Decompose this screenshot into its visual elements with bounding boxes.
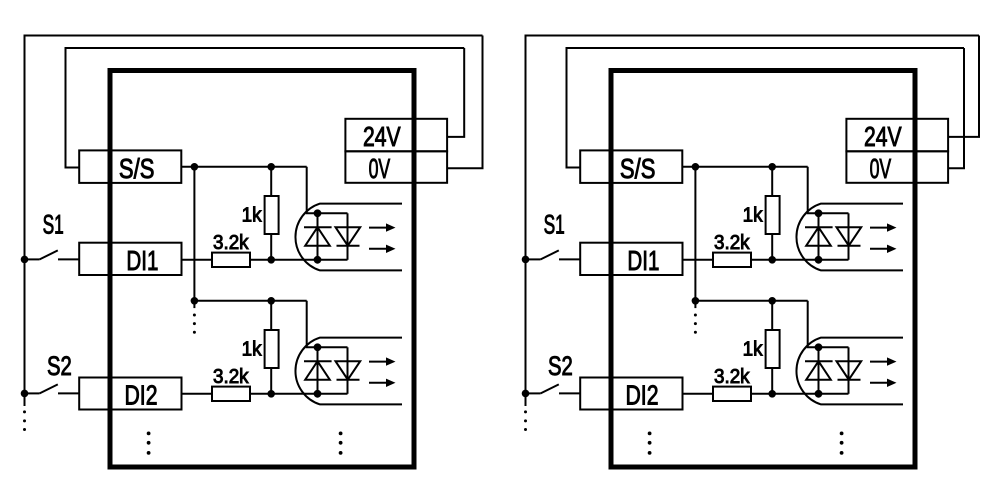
node: common row tap A ch1 B xyxy=(692,163,700,171)
light emission arrow lower ch2 A xyxy=(369,382,387,384)
wire: 1k lower lead ch1 A xyxy=(270,234,272,260)
diode D1 cathode bar ch2 A xyxy=(304,360,332,362)
diode D1 (LED, points up) ch1 A xyxy=(305,227,330,246)
wire: common node row ch2 A xyxy=(194,300,306,302)
node: LED bottom ch1 B xyxy=(815,256,823,264)
wire: common drop to ch2 A xyxy=(193,167,195,301)
wire: LED right axis ch2 A xyxy=(347,347,349,394)
node: common row tap A ch1 A xyxy=(191,163,199,171)
svg-text:DI2: DI2 xyxy=(125,379,158,410)
ellipsis: left rail continues B xyxy=(524,410,527,413)
svg-text:S/S: S/S xyxy=(620,153,656,184)
node: common row tap A ch2 A xyxy=(191,297,199,305)
terminal DI1 box A xyxy=(79,243,181,275)
node: LED anode top ch1 A xyxy=(314,209,322,217)
wire: common node row ch2 B xyxy=(695,300,807,302)
svg-text:3.2k: 3.2k xyxy=(714,365,750,388)
wire: common node row ch1 B xyxy=(682,166,807,168)
node: LED bottom ch2 A xyxy=(314,390,322,398)
diode D1 (LED, points up) ch1 B xyxy=(806,227,831,246)
wire: opto feed ch1 B xyxy=(808,167,819,214)
wire: S1 to DI1 B xyxy=(559,258,580,260)
wire: outer bus loop A (top + left rail) xyxy=(25,36,483,394)
node: 1k feed tap ch1 A xyxy=(267,163,275,171)
wire: 1k upper lead ch1 B xyxy=(771,167,773,196)
opto-coupler envelope ch2 A xyxy=(295,338,402,405)
node: LED anode top ch2 A xyxy=(314,343,322,351)
ellipsis: left rail continues A xyxy=(23,410,26,413)
wire: 24V connector B xyxy=(948,36,979,137)
wire: DI2 box to 3.2k A xyxy=(182,393,213,395)
wire: LED top link ch2 B xyxy=(819,346,849,348)
wire: common continuation stub B xyxy=(694,301,696,308)
wire: rail continuation stub below S2 B xyxy=(525,393,527,406)
switch S2 A xyxy=(25,392,40,394)
node: switch S2 tap B xyxy=(522,390,530,398)
PLC module outline A (bold box) xyxy=(110,71,414,468)
node: LED bottom ch1 A xyxy=(314,256,322,264)
opto-coupler envelope ch2 B xyxy=(796,338,903,405)
diode D2 (LED, points down) ch2 A xyxy=(336,361,361,380)
terminal 24V box B xyxy=(846,119,948,152)
ellipsis: more input terminals A xyxy=(147,432,151,436)
svg-text:DI2: DI2 xyxy=(626,379,659,410)
wire: inner bus loop B (top + rail to S/S) xyxy=(567,48,965,168)
wire: opto feed ch2 A xyxy=(307,301,318,348)
wire: LED left axis ch2 A xyxy=(317,347,319,394)
left panel: sink (minus common) input wiring xyxy=(21,36,483,468)
wire: 1k upper lead ch2 A xyxy=(270,301,272,330)
wire: LED top link ch1 A xyxy=(318,212,348,214)
svg-text:DI1: DI1 xyxy=(126,245,158,276)
resistor 1k ch1 A xyxy=(265,196,279,234)
terminal 0V box B xyxy=(846,151,948,183)
wire: opto feed ch1 A xyxy=(307,167,318,214)
diode D2 (LED, points down) ch1 B xyxy=(837,227,862,246)
svg-text:S/S: S/S xyxy=(119,153,154,184)
svg-text:DI1: DI1 xyxy=(627,245,659,276)
wire: common continuation stub A xyxy=(193,301,195,308)
svg-text:1k: 1k xyxy=(242,337,263,360)
diode D1 cathode bar ch1 B xyxy=(805,226,833,228)
node: input row tap ch2 B xyxy=(768,390,776,398)
resistor 1k ch2 B xyxy=(766,330,780,368)
resistor 3.2k ch2 B xyxy=(713,387,751,401)
node: 1k feed tap ch2 B xyxy=(768,297,776,305)
diode D1 cathode bar ch1 A xyxy=(304,226,332,228)
ellipsis: common rail continues A xyxy=(193,314,196,317)
wire: common node row ch1 A xyxy=(181,166,306,168)
svg-text:24V: 24V xyxy=(363,121,401,152)
wire: LED left axis ch1 B xyxy=(818,213,820,259)
light emission arrow upper ch1 A xyxy=(369,227,387,229)
node: LED anode top ch1 B xyxy=(815,209,823,217)
diode D2 (LED, points down) ch1 A xyxy=(336,227,361,246)
wire: inner bus loop A (top + rail to S/S) xyxy=(66,48,465,168)
wire: LED top link ch1 B xyxy=(819,212,849,214)
resistor 3.2k ch1 A xyxy=(212,253,250,267)
node: input row tap ch2 A xyxy=(267,390,275,398)
wire: opto feed ch2 B xyxy=(808,301,819,348)
wire: 1k lower lead ch2 B xyxy=(771,368,773,394)
wire: 1k lower lead ch1 B xyxy=(771,234,773,260)
light emission arrow lower ch1 B xyxy=(870,248,888,250)
svg-text:1k: 1k xyxy=(743,337,764,360)
wire: S2 to DI2 A xyxy=(58,392,79,394)
right panel: source (plus common) input wiring xyxy=(522,36,979,468)
diode D2 cathode bar ch1 A xyxy=(337,245,360,247)
svg-text:3.2k: 3.2k xyxy=(714,231,750,254)
wire: S2 to DI2 B xyxy=(559,392,580,394)
terminal S/S box B xyxy=(580,150,682,183)
light emission arrow lower ch1 A xyxy=(369,248,387,250)
svg-text:1k: 1k xyxy=(242,203,263,226)
wire: DI1 box to 3.2k A xyxy=(182,259,213,261)
opto-coupler envelope ch1 A xyxy=(295,204,402,271)
wire: LED right axis ch1 A xyxy=(347,213,349,259)
wire: input row ch1 A xyxy=(250,259,348,261)
wire: DI1 box to 3.2k B xyxy=(683,259,714,261)
diode D1 cathode bar ch2 B xyxy=(805,360,833,362)
wire: 0V connector B xyxy=(948,48,964,168)
terminal DI2 box A xyxy=(79,378,181,410)
node: LED anode top ch2 B xyxy=(815,343,823,351)
svg-text:3.2k: 3.2k xyxy=(213,231,249,254)
wire: outer bus loop B (top + left rail) xyxy=(526,36,980,394)
node: switch S1 tap B xyxy=(522,256,530,264)
node: input row tap ch1 B xyxy=(768,256,776,264)
wire: 24V connector A xyxy=(447,48,464,137)
ellipsis: more input circuits B xyxy=(840,432,844,436)
light emission arrow lower ch2 B xyxy=(870,382,888,384)
wire: common drop to ch2 B xyxy=(694,167,696,301)
light emission arrow upper ch2 B xyxy=(870,361,888,363)
wire: 0V connector A xyxy=(447,36,482,169)
opto-coupler envelope ch1 B xyxy=(796,204,903,271)
diode D2 cathode bar ch2 B xyxy=(838,379,861,381)
switch S1 A xyxy=(25,258,40,260)
wire: DI2 box to 3.2k B xyxy=(683,393,714,395)
svg-text:S2: S2 xyxy=(47,351,72,381)
terminal S/S box A xyxy=(79,150,181,183)
wire: 1k lower lead ch2 A xyxy=(270,368,272,394)
wire: rail continuation stub below S2 A xyxy=(24,393,26,406)
wire: input row ch2 B xyxy=(751,393,849,395)
terminal 0V box A xyxy=(345,151,447,183)
node: LED bottom ch2 B xyxy=(815,390,823,398)
wire: LED left axis ch2 B xyxy=(818,347,820,394)
resistor 1k ch1 B xyxy=(766,196,780,234)
wire: input row ch1 B xyxy=(751,259,849,261)
svg-text:0V: 0V xyxy=(369,153,391,184)
terminal DI1 box B xyxy=(580,243,682,275)
light emission arrow upper ch1 B xyxy=(870,227,888,229)
switch S2 B xyxy=(526,392,541,394)
resistor 1k ch2 A xyxy=(265,330,279,368)
svg-text:24V: 24V xyxy=(864,121,902,152)
svg-text:S2: S2 xyxy=(548,351,573,381)
node: 1k feed tap ch1 B xyxy=(768,163,776,171)
wire: 1k upper lead ch2 B xyxy=(771,301,773,330)
node: switch S2 tap A xyxy=(21,390,29,398)
terminal DI2 box B xyxy=(580,378,682,410)
node: switch S1 tap A xyxy=(21,256,29,264)
svg-text:0V: 0V xyxy=(870,153,892,184)
svg-text:1k: 1k xyxy=(743,203,764,226)
diode D2 cathode bar ch2 A xyxy=(337,379,360,381)
resistor 3.2k ch1 B xyxy=(713,253,751,267)
wire: S1 to DI1 A xyxy=(58,258,79,260)
terminal 24V box A xyxy=(345,119,447,152)
wire: LED left axis ch1 A xyxy=(317,213,319,259)
PLC module outline B (bold box) xyxy=(611,71,915,468)
resistor 3.2k ch2 A xyxy=(212,387,250,401)
wire: LED right axis ch1 B xyxy=(848,213,850,259)
wire: input row ch2 A xyxy=(250,393,348,395)
switch S1 B xyxy=(526,258,541,260)
svg-text:3.2k: 3.2k xyxy=(213,365,249,388)
node: input row tap ch1 A xyxy=(267,256,275,264)
diode D2 cathode bar ch1 B xyxy=(838,245,861,247)
diode D1 (LED, points up) ch2 B xyxy=(806,361,831,380)
node: common row tap A ch2 B xyxy=(692,297,700,305)
svg-text:S1: S1 xyxy=(43,210,64,240)
wire: LED right axis ch2 B xyxy=(848,347,850,394)
svg-text:S1: S1 xyxy=(544,210,565,240)
node: 1k feed tap ch2 A xyxy=(267,297,275,305)
ellipsis: more input terminals B xyxy=(648,432,652,436)
wire: 1k upper lead ch1 A xyxy=(270,167,272,196)
diode D2 (LED, points down) ch2 B xyxy=(837,361,862,380)
light emission arrow upper ch2 A xyxy=(369,361,387,363)
wire: LED top link ch2 A xyxy=(318,346,348,348)
ellipsis: more input circuits A xyxy=(339,432,343,436)
ellipsis: common rail continues B xyxy=(694,314,697,317)
diode D1 (LED, points up) ch2 A xyxy=(305,361,330,380)
